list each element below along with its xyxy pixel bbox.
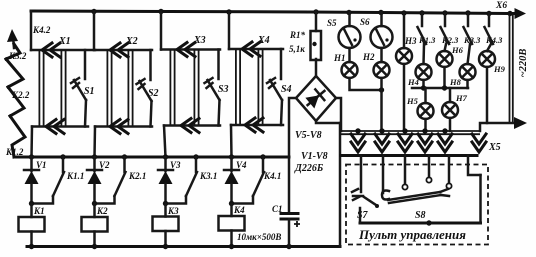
wire X5 lower bus xyxy=(341,154,477,157)
relay coil K1 xyxy=(19,204,45,247)
svg-text:К1.1: К1.1 xyxy=(66,171,84,181)
wire X3 feed xyxy=(160,12,163,50)
svg-text:S4: S4 xyxy=(281,84,292,95)
wire X4 drop xyxy=(230,125,233,157)
wire S3 upper xyxy=(217,50,220,80)
wire X2 pin1 xyxy=(107,50,111,127)
wire X3 pin2 xyxy=(194,50,198,126)
wire drop 4 xyxy=(428,156,431,178)
svg-text:К2.1: К2.1 xyxy=(128,171,146,181)
wire X1 feed xyxy=(30,11,33,50)
svg-text:К3.3: К3.3 xyxy=(463,35,481,45)
capacitor C1 xyxy=(272,157,300,247)
wire H4 bottom xyxy=(422,80,425,88)
contact K4.2 zigzag xyxy=(6,25,51,59)
contact K3.3 xyxy=(463,14,481,46)
svg-text:S5: S5 xyxy=(327,18,337,28)
wire bridge left to V-bus xyxy=(289,98,296,157)
lamp H3 xyxy=(396,13,417,64)
contact K1.2 zigzag xyxy=(5,116,25,157)
diode V3 xyxy=(158,157,181,204)
wire S2 upper xyxy=(149,50,152,80)
connector X1 bottom chevron xyxy=(46,120,64,134)
wire H1 bottom xyxy=(350,78,382,90)
wire S3 lower xyxy=(219,100,220,126)
connector X5 chevrons xyxy=(351,134,365,152)
contact K3.2 zigzag xyxy=(6,51,27,87)
lamp H8 xyxy=(449,44,476,87)
contact K1.1 xyxy=(32,157,85,204)
wire bridge right down xyxy=(336,98,341,131)
wire H6 bottom xyxy=(443,67,446,88)
svg-text:К4.1: К4.1 xyxy=(263,171,281,181)
contact K1.3 xyxy=(418,14,437,46)
socket S6 xyxy=(360,13,393,49)
svg-text:Н3: Н3 xyxy=(404,36,417,46)
wire drop 6 xyxy=(468,156,481,176)
wire H7 bottom xyxy=(449,118,452,131)
node J1 xyxy=(29,201,34,206)
wire X4 top bus xyxy=(229,48,283,51)
lamp H6 xyxy=(437,44,464,67)
svg-text:К1: К1 xyxy=(33,206,45,216)
wire X2 bottom bus xyxy=(95,125,152,128)
switch S1 xyxy=(71,78,95,100)
wire S4 upper xyxy=(280,49,283,79)
lamp H4 xyxy=(407,44,432,87)
node dots bottom bus xyxy=(29,244,34,249)
wire bridge bottom xyxy=(316,121,340,123)
switch S3 xyxy=(205,78,229,100)
node dot return xyxy=(426,220,431,225)
svg-text:V2: V2 xyxy=(99,160,110,170)
svg-text:S6: S6 xyxy=(360,17,370,27)
wire S1 upper xyxy=(84,50,87,79)
power bus 220V vertical xyxy=(510,14,530,123)
svg-text:Н2: Н2 xyxy=(362,52,375,62)
wire H9 bottom xyxy=(486,67,489,123)
svg-text:К4: К4 xyxy=(233,205,245,215)
node J2 xyxy=(92,201,97,206)
connector X2 top chevron xyxy=(110,36,138,57)
wire H8 bottom xyxy=(466,80,469,88)
svg-text:S2: S2 xyxy=(148,88,159,99)
wire S4 lower xyxy=(281,100,282,125)
relay coil K3 xyxy=(153,204,180,247)
wire right return riser xyxy=(479,175,482,223)
wire X4 pin1 xyxy=(236,49,240,125)
node H2 join xyxy=(379,87,384,92)
svg-text:X5: X5 xyxy=(488,142,501,153)
switch S7 xyxy=(352,189,379,221)
svg-text:К2.3: К2.3 xyxy=(441,35,459,45)
svg-text:S7: S7 xyxy=(357,210,369,221)
wire X2 top bus xyxy=(94,49,152,52)
svg-text:V4: V4 xyxy=(236,160,247,170)
svg-text:К3: К3 xyxy=(167,206,179,216)
wire X2 feed xyxy=(93,12,96,51)
wire S1 lower xyxy=(85,100,86,127)
node J3 xyxy=(163,201,168,206)
node J4 xyxy=(229,201,234,206)
svg-text:V5-V8: V5-V8 xyxy=(295,130,322,141)
wire drop 3 xyxy=(404,156,407,185)
wire drop 5 xyxy=(448,156,451,184)
svg-text:V1: V1 xyxy=(36,160,47,170)
connector X3 top chevron xyxy=(177,35,206,57)
svg-text:К3.1: К3.1 xyxy=(199,171,217,181)
svg-text:X1: X1 xyxy=(58,36,71,47)
svg-text:Н1: Н1 xyxy=(333,53,346,63)
svg-text:X4: X4 xyxy=(257,35,270,46)
wire X4 pin2 xyxy=(258,49,262,125)
diode V1 xyxy=(24,157,47,204)
svg-text:К4.3: К4.3 xyxy=(485,35,503,45)
lamp H9 xyxy=(479,44,506,74)
wire X2 pin2 xyxy=(128,50,132,127)
wire drop 1 xyxy=(360,156,363,193)
wire lamp join bus xyxy=(412,87,468,90)
svg-text:S8: S8 xyxy=(415,210,426,221)
lamp H2 xyxy=(362,48,390,78)
svg-text:Н5: Н5 xyxy=(406,96,419,106)
wire panel return xyxy=(360,222,481,225)
svg-text:Н7: Н7 xyxy=(455,93,468,103)
svg-text:Н4: Н4 xyxy=(407,77,419,87)
svg-text:К3.2: К3.2 xyxy=(8,51,27,61)
svg-text:X3: X3 xyxy=(193,35,206,46)
resistor R1 xyxy=(289,12,321,60)
svg-text:С1: С1 xyxy=(272,204,283,214)
node dots X5 bus xyxy=(355,128,360,133)
wire H3 bottom xyxy=(403,64,406,131)
wire drop 2 xyxy=(382,156,385,194)
wire X2 drop xyxy=(93,127,96,158)
connector X3 bottom chevron xyxy=(181,119,199,133)
wire R1 to bridge xyxy=(315,59,318,76)
connector X6 arrow xyxy=(495,1,526,19)
connector X5 bus xyxy=(340,131,501,153)
svg-text:S3: S3 xyxy=(218,84,229,95)
node dots on V-bus xyxy=(29,154,34,159)
relay coil K4 xyxy=(219,204,246,247)
switch S2 xyxy=(137,79,159,101)
contact K2.1 xyxy=(95,157,147,204)
svg-text:~220В: ~220В xyxy=(518,49,529,78)
connector X2 bottom chevron xyxy=(110,120,128,134)
contact K4.1 xyxy=(232,157,282,204)
svg-text:R1*: R1* xyxy=(289,30,306,40)
svg-text:V1-V8: V1-V8 xyxy=(301,151,328,162)
svg-text:Д226Б: Д226Б xyxy=(294,163,324,174)
switch S8 xyxy=(388,177,452,221)
wire H2 bottom xyxy=(380,78,383,131)
wire 220V bottom arrow xyxy=(480,117,527,131)
node dots on top bus xyxy=(91,9,96,14)
bottom bus wire xyxy=(27,245,340,248)
connector X4 bottom chevron xyxy=(245,118,263,132)
wire S7 to return xyxy=(359,208,362,223)
contact K2.2 zigzag xyxy=(8,87,30,116)
wire X1 drop xyxy=(30,127,33,158)
lamp H7 xyxy=(442,88,468,118)
wire X1 top bus xyxy=(31,49,95,52)
svg-text:К2: К2 xyxy=(96,206,108,216)
wire X3 pin1 xyxy=(170,50,174,126)
left arrow up xyxy=(7,29,18,48)
socket S5 xyxy=(327,13,361,49)
wire X1 pin1 xyxy=(39,50,43,127)
connector X4 top chevron xyxy=(242,35,270,56)
svg-text:10мк×500В: 10мк×500В xyxy=(237,232,281,242)
svg-text:К2.2: К2.2 xyxy=(11,90,30,100)
wire X3 bottom bus xyxy=(164,124,220,127)
svg-text:5,1к: 5,1к xyxy=(289,44,305,54)
wire H5 bottom xyxy=(424,119,427,131)
wire X1 bottom bus xyxy=(32,125,88,128)
rectifier bridge V5-V8 xyxy=(295,76,336,141)
svg-text:Н8: Н8 xyxy=(449,77,462,87)
svg-text:Н9: Н9 xyxy=(493,64,506,74)
wire X4 bottom bus xyxy=(231,124,283,127)
svg-text:К4.2: К4.2 xyxy=(32,25,51,35)
svg-text:S1: S1 xyxy=(84,86,95,97)
wire X4 feed xyxy=(228,12,231,49)
svg-text:Н6: Н6 xyxy=(451,45,464,55)
node dots y88 xyxy=(421,85,426,90)
control panel dashed box xyxy=(346,165,488,245)
wire X3 drop xyxy=(164,126,166,158)
svg-text:V3: V3 xyxy=(170,160,181,170)
contact K3.1 xyxy=(166,157,218,204)
wire top bus xyxy=(31,11,521,14)
diode V4 xyxy=(224,157,247,204)
contact K2.3 xyxy=(441,14,460,46)
lamp H5 xyxy=(406,88,434,119)
lamp H1 xyxy=(333,48,358,78)
V-bus wire xyxy=(14,156,289,159)
wire X1 pin2 xyxy=(61,50,65,127)
diode V2 xyxy=(87,157,110,204)
wire main vertical to bottom bus xyxy=(339,123,342,247)
connector X1 top chevron xyxy=(42,36,71,57)
svg-text:X2: X2 xyxy=(125,36,138,47)
svg-text:X6: X6 xyxy=(495,1,507,11)
svg-text:К1.3: К1.3 xyxy=(418,35,436,45)
wire S2 lower xyxy=(151,101,152,127)
relay coil K2 xyxy=(82,204,109,247)
terminal circle xyxy=(312,42,316,46)
svg-text:Пульт управления: Пульт управления xyxy=(358,227,466,242)
contact K4.3 xyxy=(485,14,504,46)
wire X3 top bus xyxy=(161,48,220,51)
switch S4 xyxy=(267,78,292,100)
